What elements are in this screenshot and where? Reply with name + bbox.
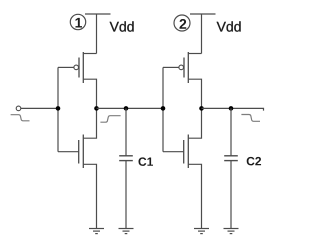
waveform glyph rising (stage1 output) [100, 116, 120, 123]
input terminal [16, 106, 21, 111]
wire stage2 output to right terminal [202, 108, 264, 110]
stage marker 2 [174, 15, 190, 31]
pmos M3 [179, 52, 202, 108]
ground (stage 1 nmos source) [89, 229, 104, 234]
node junction (stage2 gate) [161, 106, 166, 111]
nmos M4 [163, 108, 202, 228]
label Vdd 1 [110, 21, 134, 31]
node junction (stage2 output) [199, 106, 204, 111]
Vdd rail 2 (T bar) [190, 14, 216, 54]
ground (C2) [224, 229, 239, 234]
wire gate lead pmos M1 [58, 66, 74, 68]
wire stage1 output to stage2 gate [97, 107, 164, 109]
capacitor C2 [224, 108, 238, 228]
label C2 [247, 157, 261, 166]
wire input vertical node 1 [57, 67, 59, 151]
label C1 [138, 157, 153, 166]
node junction (input, stage1 gate) [56, 106, 61, 111]
stage marker 1 [70, 14, 85, 29]
capacitor C1 [119, 108, 133, 228]
label Vdd 2 [217, 21, 241, 31]
waveform glyph falling (input) [11, 115, 30, 121]
waveform glyph falling (stage2 output) [241, 115, 260, 122]
ground (stage 2 nmos source) [194, 229, 209, 234]
wire gate lead pmos M3 [163, 66, 179, 68]
node junction (C1 tap) [124, 106, 129, 111]
wire input vertical node 2 [162, 67, 164, 151]
nmos M2 [58, 108, 97, 228]
wire input to gate node [21, 107, 58, 109]
node junction (stage1 output) [94, 106, 99, 111]
node junction (C2 tap) [229, 106, 234, 111]
Vdd rail 1 (T bar) [85, 14, 111, 54]
ground (C1) [119, 229, 134, 234]
pmos M1 [74, 52, 97, 108]
